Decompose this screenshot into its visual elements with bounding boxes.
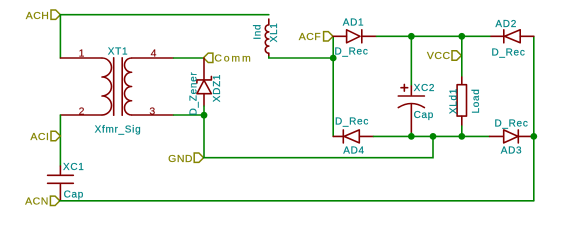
zener diode XDZ1 [197, 58, 212, 106]
svg-text:3: 3 [149, 105, 155, 117]
svg-text:D_Rec: D_Rec [334, 46, 368, 57]
diode AD2 [491, 30, 534, 43]
svg-text:XT1: XT1 [108, 46, 128, 57]
capacitor XC1 [48, 166, 74, 200]
svg-text:Cap: Cap [64, 189, 84, 200]
junction AD3 right rail [530, 133, 537, 140]
svg-text:D_Zener: D_Zener [189, 72, 200, 116]
svg-text:1: 1 [79, 48, 85, 60]
wire pin3 to GND net [174, 114, 205, 116]
svg-text:Ind: Ind [253, 24, 264, 40]
wire pin4 to Comm node [174, 57, 204, 59]
wire ACF stub vertical [332, 36, 334, 136]
svg-text:XC1: XC1 [63, 162, 85, 173]
wire ACH drop to pin 1 [59, 15, 61, 58]
global label ACF [299, 31, 333, 43]
wire bottom rail [60, 200, 534, 202]
svg-text:Load: Load [471, 88, 482, 113]
diode AD1 [333, 30, 376, 43]
svg-text:4: 4 [151, 48, 157, 60]
global label GND [168, 153, 203, 165]
resistor load XLd1 [457, 77, 466, 126]
junction XL1 ACF [330, 55, 337, 62]
global label Comm [204, 53, 253, 65]
wire XLd1 bottom lead [461, 126, 463, 136]
svg-text:VCC: VCC [427, 50, 451, 62]
svg-text:ACN: ACN [25, 196, 49, 208]
wire XC2 top lead [410, 36, 412, 86]
svg-text:AD4: AD4 [343, 146, 365, 157]
global label VCC [427, 50, 461, 62]
junction GND riser [430, 133, 437, 140]
diode AD3 [490, 130, 534, 143]
global label ACN [25, 196, 60, 208]
svg-text:XDZ1: XDZ1 [212, 74, 223, 102]
wire VCC drop [461, 36, 463, 77]
svg-text:Cap: Cap [414, 110, 434, 121]
svg-text:GND: GND [168, 153, 193, 165]
junction XC2 top [408, 33, 415, 40]
diode AD4 [333, 130, 373, 143]
svg-text:AD3: AD3 [501, 146, 523, 157]
svg-text:AD2: AD2 [495, 19, 517, 30]
wire top bridge rail [377, 35, 492, 37]
svg-text:Xfmr_Sig: Xfmr_Sig [95, 124, 142, 135]
svg-text:XL1: XL1 [269, 22, 280, 42]
svg-text:D_Rec: D_Rec [335, 117, 369, 128]
svg-text:D_Rec: D_Rec [491, 47, 525, 58]
svg-text:XC2: XC2 [414, 83, 436, 94]
junction XC2 bottom [408, 133, 415, 140]
wire XL1 to ACF stub [269, 57, 333, 59]
svg-text:AD1: AD1 [343, 18, 365, 29]
capacitor XC2 [398, 84, 424, 133]
svg-text:D_Rec: D_Rec [494, 118, 528, 129]
wire zener to GND corner [203, 106, 205, 158]
wire top rail ACH to XL1 [60, 14, 268, 16]
wire right rail [533, 36, 535, 201]
wire bottom bridge rail [374, 135, 490, 137]
svg-text:ACF: ACF [299, 31, 322, 43]
svg-text:ACH: ACH [26, 10, 50, 22]
svg-text:Comm: Comm [214, 53, 252, 65]
global label ACH [26, 10, 61, 22]
wire ACI drop [59, 115, 61, 166]
transformer XT1 [60, 58, 173, 115]
junction XLd1 top [458, 33, 465, 40]
wire GND rail [204, 136, 433, 157]
junction pin3 zener net [201, 112, 208, 119]
svg-text:ACI: ACI [30, 131, 49, 143]
svg-text:2: 2 [79, 105, 85, 117]
wire XC2 bottom lead [410, 133, 412, 136]
junction XLd1 bottom [458, 133, 465, 140]
global label ACI [30, 131, 60, 143]
inductor XL1 [265, 19, 269, 57]
svg-text:XLd1: XLd1 [448, 88, 459, 114]
